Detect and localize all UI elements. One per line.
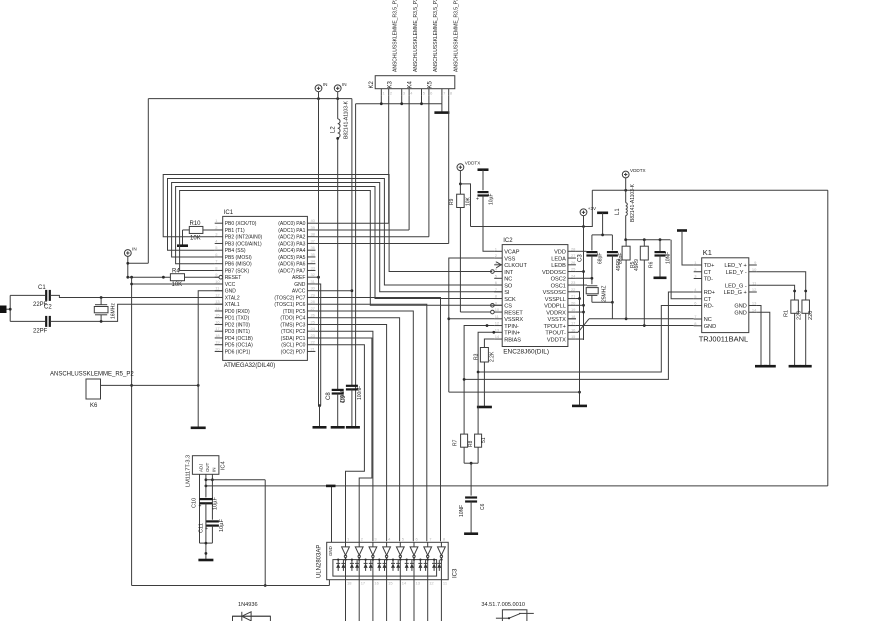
svg-text:22PF: 22PF: [33, 329, 48, 335]
svg-text:16MHz: 16MHz: [111, 303, 117, 319]
svg-text:5: 5: [495, 273, 498, 278]
svg-text:(TOSC2) PC7: (TOSC2) PC7: [274, 295, 305, 301]
svg-text:VDD: VDD: [554, 250, 566, 256]
svg-text:22: 22: [571, 287, 576, 292]
wire OUT-IN link: [206, 479, 265, 481]
capacitor C9: [346, 386, 358, 390]
svg-text:28: 28: [310, 299, 315, 304]
wire IN to AVCC and C9: [315, 99, 353, 386]
svg-text:(TDI) PC5: (TDI) PC5: [283, 309, 306, 315]
label C1 value 22PF: [33, 302, 48, 308]
svg-text:100nF: 100nF: [357, 386, 363, 400]
svg-text:(TDO) PC4: (TDO) PC4: [280, 316, 305, 322]
wire K2 contact to PA0: [315, 95, 388, 223]
capacitor C6: [465, 498, 477, 502]
svg-text:XTAL1: XTAL1: [225, 302, 240, 308]
resistor R1: [791, 300, 799, 313]
svg-text:LED_Y +: LED_Y +: [724, 263, 746, 269]
label C4 value 68pF: [618, 253, 624, 264]
svg-text:ULN2803AP: ULN2803AP: [317, 545, 323, 578]
svg-text:12: 12: [752, 287, 757, 292]
resistor R5: [622, 240, 630, 260]
svg-text:GND: GND: [225, 289, 237, 295]
svg-text:PD0 (RXD): PD0 (RXD): [225, 309, 250, 315]
svg-text:10µF: 10µF: [213, 497, 219, 510]
label ANSCHLUSSKLEMME_R3,5_P2 #4: [454, 0, 460, 72]
label R9: [449, 198, 455, 205]
supply +3V: [580, 206, 597, 216]
svg-text:2.2K: 2.2K: [490, 351, 496, 362]
svg-text:NC: NC: [704, 317, 712, 323]
wire R3 to ground: [483, 362, 485, 406]
svg-text:7: 7: [495, 287, 498, 292]
wire C11 down: [200, 526, 213, 555]
svg-text:10NF: 10NF: [459, 505, 465, 517]
svg-text:GND: GND: [734, 304, 746, 310]
wire PB5 to SI loop: [172, 183, 503, 292]
wire K1 GNDa: [757, 306, 761, 366]
svg-text:(ADC6) PA6: (ADC6) PA6: [278, 262, 305, 268]
svg-text:R3: R3: [474, 353, 480, 360]
label C3: [578, 254, 584, 262]
wire IN rail left drop: [128, 99, 149, 264]
svg-text:LED_G +: LED_G +: [724, 290, 747, 296]
svg-text:3: 3: [374, 537, 377, 542]
wire VDDRX: [576, 311, 584, 313]
svg-text:B82141-A1103-K: B82141-A1103-K: [344, 100, 350, 139]
svg-text:(ADC0) PA0: (ADC0) PA0: [278, 221, 305, 227]
svg-text:1: 1: [495, 246, 498, 251]
wire C6 to ground: [470, 502, 472, 533]
label C6: [480, 503, 486, 510]
relay K7: [496, 610, 534, 621]
svg-text:6: 6: [416, 537, 419, 542]
svg-text:8: 8: [450, 91, 453, 96]
ground R1 R2: [789, 365, 812, 368]
wire IC3 GND2 pin: [328, 580, 330, 586]
label ANSCHLUSSKLEMME_R5_P2: [50, 372, 134, 378]
svg-text:1N4936: 1N4936: [238, 602, 258, 608]
svg-text:4: 4: [410, 91, 413, 96]
wire CT2 center tap: [671, 240, 694, 299]
svg-text:IN: IN: [342, 82, 347, 87]
svg-text:7: 7: [443, 91, 446, 96]
capacitor C1: [46, 290, 50, 301]
regulator IC4 LM1117T-3.3: [186, 455, 227, 487]
label ANSCHLUSSKLEMME_R3,5_P2 #3: [433, 0, 439, 72]
svg-text:11: 11: [215, 286, 220, 291]
svg-text:(ADC3) PA3: (ADC3) PA3: [278, 241, 305, 247]
svg-text:(ADC2) PA2: (ADC2) PA2: [278, 235, 305, 241]
svg-text:GND: GND: [294, 282, 306, 288]
label C8 value 100nF: [340, 389, 346, 403]
label C2 value 22PF: [33, 329, 48, 335]
label C7 value 10uF: [489, 194, 495, 206]
svg-text:RD+: RD+: [704, 290, 715, 296]
svg-text:NC: NC: [504, 277, 512, 283]
svg-text:10: 10: [495, 307, 500, 312]
svg-text:LEDA: LEDA: [551, 256, 566, 262]
ground IC2 analog: [572, 405, 587, 408]
svg-text:25: 25: [310, 319, 315, 324]
svg-text:(TMS) PC3: (TMS) PC3: [280, 322, 305, 328]
capacitor C8: [332, 390, 344, 394]
resistor R7: [461, 434, 468, 447]
svg-text:K4: K4: [408, 80, 414, 88]
wire VDDTX rail: [592, 189, 828, 192]
svg-text:C11: C11: [199, 523, 205, 533]
svg-text:VDDTX: VDDTX: [547, 337, 566, 343]
svg-text:10K: 10K: [172, 282, 183, 288]
capacitor C4: [607, 235, 618, 256]
wire TPOUT- to NC: [576, 317, 694, 332]
svg-text:9: 9: [215, 272, 218, 277]
svg-text:35: 35: [310, 252, 315, 257]
label R2 value 220: [808, 311, 814, 320]
label R4: [172, 269, 180, 275]
svg-text:49R9: 49R9: [634, 259, 640, 271]
svg-text:B82141-A1103-K: B82141-A1103-K: [630, 183, 636, 222]
svg-text:IC2: IC2: [503, 238, 513, 244]
svg-text:25MHZ: 25MHZ: [602, 286, 608, 302]
svg-text:C6: C6: [480, 503, 486, 510]
svg-text:PB2 (INT2/AIN0): PB2 (INT2/AIN0): [225, 235, 263, 241]
svg-text:K6: K6: [90, 403, 98, 409]
wire R7 R8 join: [464, 447, 478, 495]
svg-text:18: 18: [347, 581, 352, 586]
svg-text:IC3: IC3: [453, 568, 459, 578]
label C11 value 10uF: [219, 519, 225, 532]
svg-text:2: 2: [390, 91, 393, 96]
svg-text:(OC2) PD7: (OC2) PD7: [281, 349, 306, 355]
svg-text:15: 15: [388, 581, 393, 586]
svg-text:2: 2: [215, 225, 218, 230]
svg-text:VDDTX: VDDTX: [465, 161, 481, 166]
wire IC4 OUT: [205, 474, 208, 497]
label 1N4936: [238, 602, 258, 608]
wire K2 contact to PA1: [315, 95, 409, 230]
wire link drop: [264, 480, 267, 587]
svg-text:3: 3: [215, 232, 218, 237]
svg-text:RESET: RESET: [504, 310, 523, 316]
svg-text:VDDTX: VDDTX: [630, 168, 646, 173]
wire AREF to IN1: [315, 276, 318, 278]
ground IC4: [198, 559, 213, 562]
wire R9 rail to VDDTX rail: [471, 190, 593, 228]
svg-text:VSSOSC: VSSOSC: [543, 290, 566, 296]
svg-text:PB3 (OC0/AIN1): PB3 (OC0/AIN1): [225, 241, 262, 247]
svg-text:37: 37: [310, 238, 315, 243]
svg-text:20: 20: [215, 346, 220, 351]
label C6 value 10NF: [459, 505, 465, 517]
svg-text:ADJ: ADJ: [199, 464, 204, 472]
svg-text:13: 13: [416, 581, 421, 586]
svg-text:25: 25: [571, 267, 576, 272]
ground C6: [464, 532, 478, 535]
svg-text:21: 21: [571, 294, 576, 299]
svg-text:R4: R4: [172, 269, 180, 275]
svg-text:TPOUT+: TPOUT+: [544, 324, 566, 330]
svg-text:36: 36: [310, 245, 315, 250]
svg-text:C9: C9: [341, 395, 347, 403]
svg-text:XTAL2: XTAL2: [225, 295, 240, 301]
wire R10 to PB1: [203, 229, 223, 231]
wire PC6 to IC3 input: [315, 304, 426, 541]
wire PB7 to CS loop: [180, 191, 503, 306]
label ANSCHLUSSKLEMME_R3,5_P2 #1: [393, 0, 399, 72]
svg-text:+: +: [476, 197, 479, 203]
svg-text:GND: GND: [704, 324, 716, 330]
wire crystal bottom to C4: [592, 256, 614, 304]
svg-text:14: 14: [752, 307, 757, 312]
svg-text:SCK: SCK: [504, 297, 516, 303]
wire IC4 ADJ: [199, 474, 201, 543]
wire LED_G- to R1: [757, 285, 796, 300]
wire PB2 to INT loop: [163, 175, 492, 272]
svg-text:17: 17: [215, 326, 220, 331]
svg-text:10: 10: [215, 279, 220, 284]
wire XTAL1 net: [50, 304, 222, 323]
label L2: [331, 126, 337, 133]
svg-text:24: 24: [310, 326, 315, 331]
wire VDDPLL: [576, 304, 584, 306]
wire VDDTX pin: [576, 338, 584, 341]
wire IN1 vertical: [317, 92, 320, 406]
wire R4 to RESET pin: [185, 275, 223, 279]
svg-text:5: 5: [694, 294, 697, 299]
resistor R9: [457, 194, 465, 207]
label R3 value 2.2K: [490, 351, 496, 362]
svg-text:CT: CT: [704, 270, 712, 276]
svg-text:K1: K1: [703, 248, 712, 257]
wire IC4 IN: [211, 474, 214, 519]
label C9 value 100nF: [357, 386, 363, 400]
wire PC0 to IC3 input: [315, 345, 364, 543]
wire XTAL2 net: [50, 295, 222, 299]
svg-text:17: 17: [571, 321, 576, 326]
supply IN #2: [334, 82, 346, 92]
svg-text:24: 24: [571, 273, 576, 278]
svg-text:(TOSC1) PC6: (TOSC1) PC6: [274, 302, 305, 308]
svg-text:PB0 (XCK/T0): PB0 (XCK/T0): [225, 221, 257, 227]
label R8 value 51: [481, 437, 487, 443]
svg-text:16: 16: [571, 327, 576, 332]
wire LED_Y- to R2: [757, 272, 807, 300]
svg-text:VCC: VCC: [225, 282, 236, 288]
svg-text:2: 2: [361, 537, 364, 542]
label L1 value B82141-A1103-K: [630, 183, 636, 222]
wire R5 bottom: [625, 260, 627, 319]
diode D1 1N4936: [233, 612, 271, 621]
wire RBIAS: [484, 339, 494, 347]
label K6: [90, 403, 98, 409]
wire PC2 to IC3 input: [315, 331, 373, 541]
svg-text:23: 23: [571, 280, 576, 285]
svg-text:L2: L2: [331, 126, 337, 133]
svg-text:RBIAS: RBIAS: [504, 337, 521, 343]
svg-text:RESET: RESET: [225, 275, 242, 281]
wire TD+ net: [682, 231, 694, 266]
svg-text:PD5 (OC1A): PD5 (OC1A): [225, 343, 253, 349]
wire K6 net: [101, 384, 200, 387]
label R10 value 10K: [190, 236, 201, 242]
svg-text:14: 14: [402, 581, 407, 586]
svg-text:TD-: TD-: [704, 277, 713, 283]
wire PB4 to SO loop: [168, 179, 503, 286]
svg-text:+: +: [199, 504, 202, 510]
resistor R10: [189, 226, 203, 233]
capacitor C10: [199, 499, 213, 509]
wire VSSRX: [449, 318, 494, 320]
svg-text:PB4 (SS): PB4 (SS): [225, 248, 246, 254]
wire IN rail top: [148, 92, 352, 100]
svg-text:34: 34: [310, 259, 315, 264]
wire big loop bottom rail: [205, 485, 828, 488]
wire C1 C2 left join: [10, 295, 46, 321]
wire OSC1 net: [576, 284, 587, 286]
svg-text:OSC1: OSC1: [551, 283, 566, 289]
svg-text:10µF: 10µF: [219, 519, 225, 532]
svg-text:PB6 (MISO): PB6 (MISO): [225, 262, 252, 268]
svg-text:K3: K3: [388, 80, 394, 88]
wire K2 contact to PA3: [315, 95, 448, 243]
op-amp IC2 ENC28J60(DIL) ethernet controller: [491, 238, 577, 355]
connector K1 TRJ0011BANL RJ45 jack: [694, 248, 757, 344]
svg-text:18: 18: [571, 314, 576, 319]
wire PC1 to IC3 input: [315, 338, 372, 542]
capacitor C7 10uF: [476, 192, 489, 202]
svg-text:11: 11: [495, 314, 500, 319]
label R6 value 49R9: [634, 259, 640, 271]
label C8: [326, 392, 332, 400]
svg-text:PD6 (ICP1): PD6 (ICP1): [225, 349, 251, 355]
connector K6: [86, 379, 101, 399]
wire R10 to ground: [183, 230, 190, 245]
wire ground rail 392: [449, 391, 580, 393]
op-amp IC3 ULN2803AP driver: [317, 537, 459, 621]
ground K1: [755, 365, 776, 368]
wire GND pin to ground: [198, 291, 223, 427]
svg-text:PB7 (SCK): PB7 (SCK): [225, 268, 250, 274]
svg-text:10µF: 10µF: [489, 194, 495, 206]
svg-text:4: 4: [215, 238, 218, 243]
svg-text:VDDRX: VDDRX: [546, 310, 566, 316]
svg-text:18: 18: [215, 333, 220, 338]
svg-text:1: 1: [347, 537, 350, 542]
wire K2 contact stubs: [381, 89, 453, 96]
label C2: [44, 305, 52, 311]
wire RESET net: [128, 276, 171, 279]
svg-text:K5: K5: [428, 80, 434, 88]
svg-text:5: 5: [402, 537, 405, 542]
wire TPIN- to RD+: [464, 292, 694, 379]
ground left edge: [0, 306, 12, 314]
wire PC7 to IC3 input: [315, 297, 440, 541]
label R6: [649, 261, 655, 268]
label Q1 value 16MHz: [111, 303, 117, 319]
svg-text:VSSPLL: VSSPLL: [545, 297, 566, 303]
wire R7 top: [463, 378, 466, 434]
svg-text:IN: IN: [323, 82, 328, 87]
wire IN stem: [126, 256, 129, 278]
label C1: [38, 285, 46, 291]
wire bottom rail: [132, 585, 330, 587]
wire TPIN+ to RD-: [478, 306, 694, 373]
svg-text:LED_Y -: LED_Y -: [726, 270, 747, 276]
svg-text:19: 19: [571, 307, 576, 312]
wire VSSTX stub: [568, 318, 576, 320]
svg-text:C1: C1: [38, 285, 46, 291]
svg-text:68pF: 68pF: [598, 253, 604, 264]
label ANSCHLUSSKLEMME_R3,5_P2 #2: [413, 0, 419, 72]
svg-text:8: 8: [495, 294, 498, 299]
svg-text:TD+: TD+: [704, 263, 715, 269]
svg-text:13: 13: [752, 301, 757, 306]
wire C7 to VCAP: [483, 196, 494, 252]
svg-text:INT: INT: [504, 270, 514, 276]
svg-text:R7: R7: [453, 439, 459, 446]
ground C9: [346, 426, 360, 429]
label R10: [190, 221, 202, 227]
inductor L1: [626, 178, 628, 240]
svg-text:AREF: AREF: [292, 275, 305, 281]
svg-text:31: 31: [310, 279, 315, 284]
ground TD+ tap: [677, 229, 687, 232]
svg-text:(ADC4) PA4: (ADC4) PA4: [278, 248, 305, 254]
wire C8 to ground: [337, 394, 339, 427]
svg-text:PD4 (OC1B): PD4 (OC1B): [225, 336, 253, 342]
ground R10: [177, 244, 188, 247]
ground C7 top: [478, 170, 489, 191]
svg-text:7: 7: [694, 314, 697, 319]
svg-text:GND: GND: [734, 310, 746, 316]
svg-text:3: 3: [403, 91, 406, 96]
svg-text:IN: IN: [212, 468, 217, 472]
svg-text:TPOUT-: TPOUT-: [545, 331, 566, 337]
svg-text:26: 26: [571, 260, 576, 265]
label relay 34.51.7.005.0010: [481, 602, 525, 608]
wire PC4 to IC3 input: [315, 318, 399, 542]
ground crystal caps: [597, 213, 608, 235]
svg-text:10: 10: [752, 267, 757, 272]
svg-text:K2: K2: [369, 80, 375, 88]
svg-text:R10: R10: [190, 221, 202, 227]
svg-text:2: 2: [495, 253, 498, 258]
svg-text:8: 8: [694, 321, 697, 326]
svg-text:R8: R8: [468, 440, 474, 447]
wire VDDTX stem: [459, 171, 462, 195]
svg-text:VCAP: VCAP: [504, 250, 520, 256]
svg-text:6: 6: [495, 280, 498, 285]
label C9: [341, 395, 347, 403]
label C3 value 68pF: [598, 253, 604, 264]
svg-text:R1: R1: [784, 310, 790, 317]
wire K2 ground link: [356, 95, 442, 105]
svg-text:VSSTX: VSSTX: [548, 317, 567, 323]
ground C5: [654, 276, 667, 279]
label C5 value 10NF: [666, 252, 672, 264]
svg-text:TPIN+: TPIN+: [504, 331, 520, 337]
svg-text:VDDPLL: VDDPLL: [544, 304, 566, 310]
wire VDDTX jog to rail: [460, 184, 470, 227]
svg-text:RD-: RD-: [704, 304, 714, 310]
svg-text:30: 30: [310, 286, 315, 291]
svg-text:51: 51: [481, 437, 487, 443]
wire VCC riser: [130, 277, 133, 585]
label L2 value B82141-A1103-K: [344, 100, 350, 139]
svg-text:23: 23: [310, 333, 315, 338]
wire +3V stem: [582, 216, 585, 340]
